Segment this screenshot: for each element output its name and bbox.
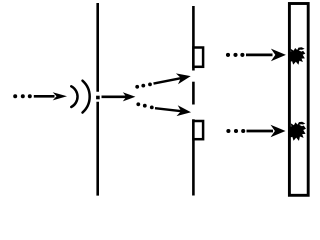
incident beam dotted arrow [13,92,67,100]
central arrow from single slit [102,92,136,101]
barrier 1 upper segment [96,3,99,92]
barrier 2 top segment [192,6,195,71]
barrier 2 bottom segment [192,119,195,195]
barrier 1 lower segment [96,102,99,196]
detector box at slit 2 [193,121,203,139]
slit dot in barrier 1 [96,96,100,100]
particle impact splat 1 [289,47,306,65]
wavefront arc 1 [71,86,77,107]
detection screen [289,4,308,196]
upper arrow to screen [226,49,286,62]
upper diverging dotted arrow [135,73,190,88]
particle impact splat 2 [289,122,306,141]
wavefront arc 2 [83,81,90,113]
lower diverging dotted arrow [136,102,191,116]
detector box at slit 1 [193,48,203,67]
lower arrow to screen [226,125,285,138]
barrier 2 middle segment between slits [192,82,195,105]
